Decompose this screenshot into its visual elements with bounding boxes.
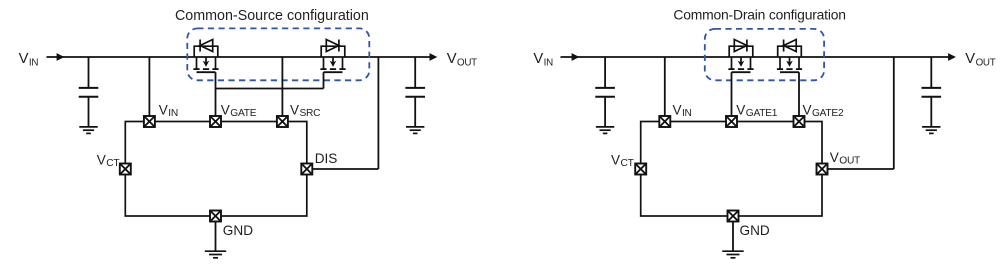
pin VGATE1 (U2) <box>726 116 737 127</box>
svg-text:Common-Source configuration: Common-Source configuration <box>175 8 369 24</box>
svg-text:V: V <box>736 102 745 117</box>
svg-text:V: V <box>19 51 29 67</box>
input arrowhead (right circuit) <box>572 53 580 61</box>
controller block U1 (left circuit) <box>125 122 306 217</box>
svg-text:CT: CT <box>106 158 119 169</box>
svg-text:IN: IN <box>168 108 178 119</box>
controller block U2 (right circuit) <box>641 122 822 217</box>
wire VOUT pin to output rail horizontal <box>828 168 894 170</box>
pin GND (U2) <box>728 211 739 222</box>
transistor Q4 body-diode frame <box>778 46 802 57</box>
wire output capacitor (left circuit) top lead <box>414 57 416 87</box>
svg-text:IN: IN <box>544 58 553 69</box>
svg-text:V: V <box>673 102 682 117</box>
transistor Q3 channel bars <box>728 68 753 70</box>
wire input capacitor (left circuit) bottom lead <box>88 98 90 127</box>
transistor Q2 channel contacts <box>324 57 343 69</box>
svg-text:Common-Drain configuration: Common-Drain configuration <box>673 6 845 22</box>
dashed enclosure Common-Source FET pair <box>187 28 369 80</box>
pin VCT (U2) <box>635 164 646 175</box>
svg-text:OUT: OUT <box>976 58 996 69</box>
transistor Q3 body-diode symbol <box>734 40 747 52</box>
wire output capacitor (left circuit) bottom lead <box>414 98 416 127</box>
svg-text:V: V <box>803 102 812 117</box>
output arrowhead (right circuit) <box>948 53 956 61</box>
svg-text:DIS: DIS <box>315 151 338 166</box>
transistor Q2 channel bars <box>320 68 345 70</box>
transistor Q1 gate plate <box>197 71 216 73</box>
svg-text:V: V <box>447 51 457 67</box>
pin VSRC (U1) <box>277 116 288 127</box>
wire VOUT pin to output rail vertical <box>893 57 895 169</box>
svg-text:IN: IN <box>29 58 38 69</box>
svg-text:V: V <box>611 152 620 167</box>
transistor Q4 channel bars <box>777 68 802 70</box>
ground GND (right circuit) <box>722 251 743 258</box>
wire Q3 gate to VGATE1 pin <box>731 72 733 116</box>
transistor Q3 channel contacts <box>732 57 751 69</box>
pin DIS (U1) <box>301 164 312 175</box>
wire GND pin to ground (right circuit) <box>732 222 734 251</box>
transistor Q2 body arrow <box>330 61 337 67</box>
ground below output capacitor (left circuit) <box>406 127 424 133</box>
wire Q4 gate to VGATE2 pin <box>798 72 800 116</box>
wire main rail (left circuit) <box>47 56 431 58</box>
ground GND (left circuit) <box>205 251 226 258</box>
pin VIN (U2) <box>659 116 670 127</box>
transistor Q1 body-diode frame <box>194 46 218 57</box>
svg-text:V: V <box>159 102 168 117</box>
wire input capacitor (right circuit) bottom lead <box>604 98 606 127</box>
ground below output capacitor (right circuit) <box>922 127 940 133</box>
pin VIN (U1) <box>144 116 155 127</box>
svg-text:GND: GND <box>223 223 253 238</box>
wire DIS to output rail horizontal <box>312 168 378 170</box>
svg-text:GND: GND <box>740 223 770 238</box>
svg-text:V: V <box>290 102 299 117</box>
transistor Q2 body-diode frame <box>321 46 345 57</box>
transistor Q1 channel contacts <box>197 57 216 69</box>
capacitor output capacitor (right circuit) <box>922 88 942 97</box>
svg-text:V: V <box>533 51 543 67</box>
pin VOUT (U2) <box>817 164 828 175</box>
pin VCT (U1) <box>120 164 131 175</box>
svg-text:V: V <box>965 51 975 67</box>
transistor Q4 body arrow <box>786 61 793 67</box>
transistor Q1 body-diode symbol <box>200 40 213 52</box>
wire input capacitor (left circuit) top lead <box>88 57 90 87</box>
ground below input capacitor (left circuit) <box>79 127 97 133</box>
transistor Q4 channel contacts <box>780 57 799 69</box>
transistor Q2 body-diode symbol <box>326 40 339 52</box>
pin VGATE2 (U2) <box>794 116 805 127</box>
pin VGATE (U1) <box>210 116 221 127</box>
wire gate bus Q1-Q2 <box>216 88 324 90</box>
wire GND pin to ground (left circuit) <box>215 222 217 251</box>
svg-text:V: V <box>830 150 839 165</box>
ground below input capacitor (right circuit) <box>596 127 614 133</box>
svg-text:V: V <box>221 102 230 117</box>
transistor Q3 body-diode frame <box>729 46 753 57</box>
wire Q2 gate drop <box>323 72 325 88</box>
transistor Q4 gate plate <box>780 71 799 73</box>
svg-text:GATE1: GATE1 <box>746 108 778 119</box>
svg-text:OUT: OUT <box>839 156 860 167</box>
wire Q1 gate to VGATE pin <box>215 72 217 116</box>
svg-text:OUT: OUT <box>457 58 477 69</box>
capacitor input capacitor (right circuit) <box>595 88 615 97</box>
capacitor output capacitor (left circuit) <box>405 88 425 97</box>
transistor Q1 channel bars <box>193 68 218 70</box>
input arrowhead (left circuit) <box>57 53 65 61</box>
wire VIN pin drop (left circuit) <box>148 57 150 116</box>
wire main rail (right circuit) <box>561 56 950 58</box>
wire VSRC drop (common source node) <box>281 57 283 116</box>
capacitor input capacitor (left circuit) <box>79 88 99 97</box>
dashed enclosure Common-Drain FET pair <box>705 29 824 80</box>
transistor Q3 body arrow <box>738 61 745 67</box>
svg-text:IN: IN <box>682 108 692 119</box>
svg-text:GATE2: GATE2 <box>812 108 844 119</box>
wire VIN pin drop (right circuit) <box>664 57 666 116</box>
transistor Q1 body arrow <box>203 61 210 67</box>
svg-text:V: V <box>97 152 106 167</box>
wire DIS to output rail vertical <box>377 57 379 169</box>
svg-text:SRC: SRC <box>299 108 320 119</box>
transistor Q3 gate plate <box>732 71 751 73</box>
svg-text:CT: CT <box>620 158 633 169</box>
output arrowhead (left circuit) <box>430 53 438 61</box>
wire output capacitor (right circuit) bottom lead <box>930 98 932 127</box>
transistor Q2 gate plate <box>324 71 343 73</box>
svg-text:GATE: GATE <box>230 108 256 119</box>
pin GND (U1) <box>210 211 221 222</box>
transistor Q4 body-diode symbol <box>784 40 797 52</box>
wire output capacitor (right circuit) top lead <box>930 57 932 87</box>
wire input capacitor (right circuit) top lead <box>604 57 606 87</box>
